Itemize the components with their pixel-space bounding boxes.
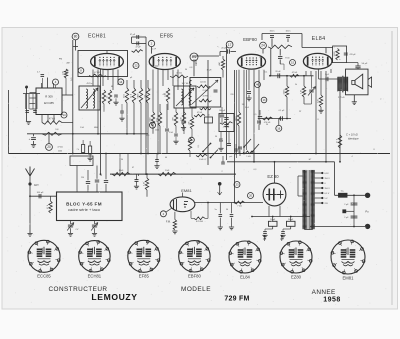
svg-text:0,1: 0,1: [265, 72, 268, 74]
svg-text:1 kΩ: 1 kΩ: [165, 170, 170, 172]
svg-text:14: 14: [62, 113, 66, 117]
svg-text:30: 30: [121, 159, 123, 161]
svg-text:100 pF: 100 pF: [37, 192, 44, 194]
svg-text:50: 50: [207, 115, 209, 117]
svg-text:d: d: [259, 57, 260, 59]
svg-text:452 kc: 452 kc: [87, 83, 93, 85]
svg-text:Ω4,7Ω: Ω4,7Ω: [200, 82, 206, 84]
svg-text:ANNEE: ANNEE: [312, 289, 336, 296]
svg-text:50 μF: 50 μF: [362, 63, 368, 65]
svg-text:47 kΩ: 47 kΩ: [49, 119, 55, 121]
svg-text:220: 220: [230, 94, 233, 96]
svg-text:250: 250: [81, 177, 84, 179]
svg-text:6,3: 6,3: [254, 169, 257, 171]
svg-text:EL84: EL84: [312, 36, 326, 42]
svg-text:470 kΩ: 470 kΩ: [223, 127, 230, 129]
svg-text:P.O.: P.O.: [68, 69, 70, 73]
svg-text:5k: 5k: [295, 84, 297, 86]
svg-text:EF85: EF85: [139, 274, 150, 279]
svg-text:14: 14: [119, 80, 123, 84]
svg-text:68: 68: [111, 86, 113, 88]
svg-text:21 FB: 21 FB: [202, 90, 208, 92]
svg-text:50: 50: [100, 175, 102, 177]
svg-text:1 kΩ: 1 kΩ: [123, 93, 125, 98]
svg-text:20 pF: 20 pF: [221, 48, 227, 50]
svg-text:7 k: 7 k: [76, 149, 79, 151]
svg-text:cadre série + taco: cadre série + taco: [68, 207, 101, 212]
svg-text:2: 2: [221, 171, 222, 173]
svg-text:F.M.: F.M.: [166, 219, 171, 223]
svg-text:0,5: 0,5: [254, 114, 257, 116]
svg-text:24: 24: [261, 44, 265, 48]
svg-text:47 kΩ: 47 kΩ: [57, 147, 63, 149]
svg-text:10000: 10000: [334, 52, 336, 57]
svg-text:47k: 47k: [162, 94, 165, 96]
svg-text:AM: AM: [218, 62, 221, 65]
svg-text:+: +: [29, 137, 31, 141]
svg-text:50: 50: [266, 124, 268, 126]
svg-text:47: 47: [132, 167, 134, 169]
svg-text:AM: AM: [67, 62, 70, 65]
svg-text:47 kΩ: 47 kΩ: [176, 73, 182, 75]
svg-text:1 kΩ: 1 kΩ: [80, 127, 85, 129]
svg-text:c: c: [218, 46, 219, 48]
svg-text:8: 8: [373, 149, 374, 151]
svg-text:1 M: 1 M: [143, 182, 145, 186]
svg-text:0,1 μF: 0,1 μF: [279, 110, 285, 112]
svg-text:470 pF: 470 pF: [349, 54, 356, 56]
svg-text:25: 25: [299, 111, 301, 113]
svg-text:100 pF: 100 pF: [219, 110, 226, 112]
svg-text:6,8: 6,8: [190, 67, 193, 69]
svg-text:1 M: 1 M: [300, 90, 302, 94]
svg-text:20 nF: 20 nF: [275, 71, 281, 73]
svg-text:100: 100: [62, 71, 64, 74]
svg-text:1 kΩ: 1 kΩ: [169, 132, 174, 134]
svg-text:ECC85: ECC85: [44, 101, 54, 105]
svg-text:17: 17: [228, 43, 232, 47]
svg-text:EM81: EM81: [343, 275, 355, 280]
svg-text:EL84: EL84: [240, 274, 250, 279]
svg-text:21E: 21E: [192, 55, 197, 59]
svg-text:2200: 2200: [155, 130, 159, 132]
svg-text:40: 40: [165, 157, 167, 159]
svg-text:EBF80: EBF80: [188, 273, 201, 278]
svg-text:47 kΩ: 47 kΩ: [292, 72, 298, 74]
svg-text:EZ80: EZ80: [291, 274, 302, 279]
svg-text:2200: 2200: [58, 151, 62, 153]
svg-text:22: 22: [134, 64, 138, 68]
svg-text:1 kΩ: 1 kΩ: [119, 170, 124, 172]
svg-text:470 kΩ: 470 kΩ: [196, 221, 203, 223]
svg-text:1 kΩ: 1 kΩ: [246, 156, 251, 158]
svg-text:BLOC Y-65 FM: BLOC Y-65 FM: [66, 201, 102, 206]
svg-text:1 kΩ: 1 kΩ: [156, 117, 158, 122]
svg-text:EBF80: EBF80: [243, 37, 257, 42]
svg-text:2,2: 2,2: [149, 89, 152, 91]
svg-text:6,3 V: 6,3 V: [325, 193, 330, 195]
svg-text:30: 30: [185, 69, 187, 71]
svg-text:23: 23: [235, 183, 239, 187]
svg-text:0,1: 0,1: [204, 159, 207, 161]
svg-text:470: 470: [100, 95, 102, 98]
svg-text:7 kΩ: 7 kΩ: [237, 205, 242, 207]
svg-text:100: 100: [180, 117, 182, 120]
svg-text:47 pF: 47 pF: [130, 34, 136, 36]
svg-text:5n: 5n: [215, 209, 217, 211]
svg-text:2 μF: 2 μF: [344, 217, 349, 219]
svg-text:ANT.: ANT.: [34, 184, 40, 187]
svg-text:G.O.: G.O.: [71, 77, 73, 81]
svg-text:R 309: R 309: [45, 95, 53, 99]
svg-text:6,3V: 6,3V: [325, 173, 330, 175]
svg-text:10,7 Mc: 10,7 Mc: [181, 83, 188, 85]
svg-text:6800: 6800: [94, 127, 98, 129]
svg-text:0,5: 0,5: [147, 135, 150, 137]
svg-text:729 FM: 729 FM: [224, 296, 249, 303]
svg-text:22k: 22k: [188, 121, 190, 124]
svg-text:20: 20: [249, 194, 253, 198]
svg-text:1958: 1958: [323, 297, 341, 304]
svg-text:2,7 kΩ: 2,7 kΩ: [338, 97, 345, 99]
svg-text:16: 16: [277, 126, 281, 130]
svg-text:identique: identique: [348, 136, 359, 140]
svg-text:2 k: 2 k: [106, 96, 108, 99]
svg-text:20: 20: [47, 145, 51, 149]
svg-text:EZ 80: EZ 80: [267, 174, 279, 179]
svg-text:15: 15: [291, 61, 295, 65]
svg-text:47 kΩ: 47 kΩ: [197, 112, 203, 114]
svg-text:50 μF: 50 μF: [288, 219, 294, 221]
svg-text:MODELE: MODELE: [181, 286, 211, 293]
svg-text:0,1 μF: 0,1 μF: [265, 118, 271, 120]
svg-text:4: 4: [351, 156, 352, 158]
svg-text:4,7: 4,7: [37, 72, 40, 74]
svg-text:Pu: Pu: [365, 209, 369, 213]
svg-text:44 FB: 44 FB: [202, 96, 208, 98]
svg-text:47 kΩ: 47 kΩ: [94, 72, 100, 74]
svg-text:1M: 1M: [242, 104, 245, 106]
svg-text:EF85: EF85: [160, 34, 173, 40]
svg-text:ECC85: ECC85: [37, 274, 51, 279]
svg-text:FM: FM: [59, 59, 62, 61]
svg-text:47 pF: 47 pF: [135, 47, 141, 49]
svg-text:80: 80: [74, 35, 78, 39]
svg-text:LEMOUZY: LEMOUZY: [91, 292, 137, 302]
svg-text:46: 46: [256, 83, 260, 87]
svg-text:50 μF: 50 μF: [270, 219, 276, 221]
svg-text:8: 8: [317, 119, 318, 121]
svg-text:350 V: 350 V: [325, 178, 331, 180]
svg-text:EM81: EM81: [181, 188, 192, 193]
svg-text:ECH81: ECH81: [88, 273, 102, 278]
svg-text:2 μF: 2 μF: [344, 204, 349, 206]
svg-text:C + 10 kΩ: C + 10 kΩ: [346, 133, 358, 137]
svg-text:470: 470: [172, 117, 174, 120]
svg-text:fus.: fus.: [341, 190, 345, 192]
svg-text:350 V: 350 V: [325, 188, 331, 190]
